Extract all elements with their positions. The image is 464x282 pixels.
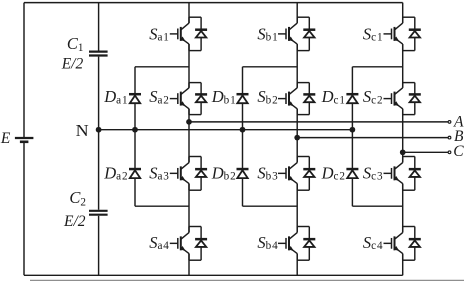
svg-text:E/2: E/2	[61, 56, 84, 73]
svg-text:C: C	[453, 143, 464, 160]
svg-text:E: E	[0, 130, 11, 147]
svg-text:E/2: E/2	[63, 213, 86, 230]
svg-text:N: N	[76, 121, 89, 140]
